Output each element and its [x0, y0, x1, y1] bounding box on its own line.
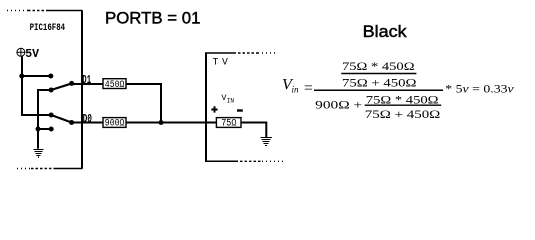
equation main fraction bar — [314, 89, 443, 91]
svg-text:75Ω + 450Ω: 75Ω + 450Ω — [342, 77, 417, 89]
wire 5V bus to SW1 upper contact — [21, 75, 51, 77]
equation upper fraction bar — [341, 73, 416, 75]
resistor R2 box 900 ohm — [103, 118, 126, 128]
svg-text:450Ω: 450Ω — [105, 80, 125, 91]
junction dot on 5V bus — [19, 74, 24, 79]
switch SW2 lever (RB0 to 5V) — [51, 115, 71, 123]
SW1 upper contact dot (5V side, open) — [48, 74, 53, 79]
wire corner down to D0 net — [160, 83, 162, 123]
wire R1 to corner — [126, 83, 161, 85]
wire gnd bus to SW1 pole — [38, 89, 52, 91]
junction dot on gnd bus — [36, 127, 41, 132]
svg-text:D0: D0 — [83, 113, 92, 126]
svg-text:TV: TV — [213, 56, 229, 67]
chip U1 PIC16F84 box — [7, 11, 83, 169]
svg-text:PIC16F84: PIC16F84 — [30, 23, 66, 34]
wire 5V vertical bus — [21, 56, 23, 116]
wire SW1 to resistor R1 — [72, 83, 103, 85]
SW2 upper contact dot (5V side) — [49, 113, 54, 118]
minus sign — [237, 109, 243, 111]
wire corner down to GND2 — [265, 122, 267, 138]
svg-text:Black: Black — [363, 23, 408, 41]
svg-text:IN: IN — [227, 98, 235, 105]
wire gnd bus to SW2 lower contact — [38, 128, 51, 130]
ground symbol GND1 — [33, 150, 43, 158]
svg-text:in: in — [292, 85, 300, 95]
wire SW2 to resistor R2 — [72, 122, 103, 124]
equation lower fraction bar — [365, 104, 442, 106]
ground symbol GND2 — [260, 138, 271, 146]
resistor R3 box 75 ohm — [216, 118, 241, 128]
wire gnd vertical bus — [37, 89, 39, 149]
SW1 throw dot (D1 side) — [69, 81, 74, 86]
svg-text:PORTB = 01: PORTB = 01 — [105, 9, 201, 27]
svg-text:=: = — [304, 80, 313, 97]
switch SW1 lever (RB1 to gnd) — [51, 83, 72, 90]
plus sign — [211, 106, 217, 112]
supply +5V symbol — [17, 48, 26, 57]
svg-text:5V: 5V — [25, 47, 40, 61]
TV box — [205, 53, 283, 162]
wire R2 to junction — [126, 122, 161, 124]
SW2 lower contact dot (gnd side, open) — [49, 127, 54, 132]
svg-text:900Ω: 900Ω — [105, 119, 125, 130]
svg-text:* 5v = 0.33v: * 5v = 0.33v — [445, 83, 514, 95]
svg-text:900Ω +: 900Ω + — [315, 100, 362, 112]
wire 5V bus to SW2 upper contact — [21, 114, 51, 116]
SW1 pole dot (gnd side) — [49, 88, 54, 93]
svg-text:75Ω * 450Ω: 75Ω * 450Ω — [342, 61, 415, 73]
resistor R1 box 450 ohm — [103, 79, 126, 89]
svg-text:75Ω + 450Ω: 75Ω + 450Ω — [365, 109, 441, 121]
wire R3 to corner — [241, 122, 266, 124]
svg-text:75Ω: 75Ω — [221, 119, 236, 130]
wire junction to TV resistor — [161, 122, 216, 124]
junction dot divider node — [159, 120, 164, 125]
SW2 throw dot (D0 side) — [69, 120, 74, 125]
